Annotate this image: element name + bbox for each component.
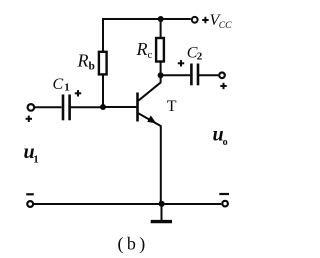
ground xyxy=(151,220,172,223)
wire top rail xyxy=(102,18,191,20)
svg-text:R: R xyxy=(136,39,148,59)
svg-text:b: b xyxy=(89,61,95,73)
svg-text:R: R xyxy=(77,50,89,70)
label plus below output terminal xyxy=(220,83,226,89)
transistor T xyxy=(138,82,161,126)
label C1 xyxy=(53,76,70,94)
label minus bottom right xyxy=(219,193,229,195)
node collector junction xyxy=(158,72,164,78)
wire collector node to C2 xyxy=(161,74,190,76)
wire Rb top segment xyxy=(102,18,104,51)
svg-text:(b): (b) xyxy=(118,234,149,255)
node top rail junction xyxy=(158,16,164,22)
wire Rb bottom segment xyxy=(102,75,104,108)
wire bottom rail xyxy=(33,203,221,205)
capacitor C1 xyxy=(63,95,70,121)
resistor Rb xyxy=(99,52,107,75)
wire C1 to base node xyxy=(71,106,104,108)
wire C2 to output terminal xyxy=(199,74,218,76)
terminal +Vcc xyxy=(192,17,198,23)
terminal input xyxy=(28,104,35,111)
label Rb xyxy=(77,50,95,72)
wire emitter vertical xyxy=(160,126,162,205)
label u1 xyxy=(24,141,39,166)
wire input terminal to C1 xyxy=(35,106,62,108)
svg-text:1: 1 xyxy=(64,82,70,94)
wire base node to transistor base xyxy=(103,106,136,108)
wire Rc bottom to collector node xyxy=(160,62,162,84)
svg-text:T: T xyxy=(167,98,177,115)
label minus bottom left xyxy=(26,193,34,195)
svg-text:2: 2 xyxy=(197,51,203,63)
terminal output xyxy=(219,73,225,79)
terminal bottom left xyxy=(27,201,33,207)
label plus near C1 xyxy=(75,90,81,96)
node emitter ground junction xyxy=(159,201,165,207)
capacitor C2 xyxy=(191,64,198,86)
svg-text:c: c xyxy=(148,49,153,61)
label uo xyxy=(213,124,228,148)
label plus near C2 xyxy=(178,60,184,66)
label C2 xyxy=(187,45,203,63)
node base junction xyxy=(100,104,106,110)
wire collector branch top xyxy=(160,19,162,39)
label Rc xyxy=(136,39,153,61)
label plus below input terminal xyxy=(26,116,32,122)
label +Vcc xyxy=(202,12,232,31)
resistor Rc xyxy=(156,38,164,62)
wire ground stub xyxy=(161,204,163,221)
terminal bottom right xyxy=(222,201,228,207)
svg-text:CC: CC xyxy=(219,21,232,31)
svg-text:o: o xyxy=(223,137,228,148)
svg-text:1: 1 xyxy=(33,154,39,166)
svg-text:C: C xyxy=(53,76,64,93)
